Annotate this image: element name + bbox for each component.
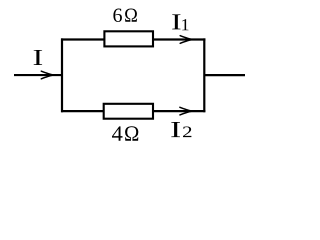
value label "4" of R2: [112, 126, 122, 140]
resistor R2 body (4 ohm): [104, 104, 153, 119]
label I of I1: [172, 14, 180, 29]
node A: left junction vertical wire: [61, 38, 63, 112]
wire: top branch from node A to resistor R1: [61, 38, 104, 40]
value label "6" of R1: [113, 9, 122, 22]
wire: bottom branch from R2 to node B: [153, 110, 205, 112]
current arrow for I2 on bottom branch: [180, 107, 192, 115]
label I (total current): [34, 50, 42, 65]
wire: top branch from R1 to node B: [153, 38, 206, 40]
wire: bottom branch from node A to resistor R2: [61, 110, 104, 112]
wire: input lead into node A: [14, 74, 63, 76]
value label "Omega" of R1: [125, 9, 137, 22]
node B: right junction vertical wire: [203, 38, 205, 112]
subscript 2 of I2: [183, 127, 191, 138]
subscript 1 of I1: [182, 19, 188, 30]
resistor R1 body (6 ohm): [104, 31, 153, 46]
current arrow for I1 on top branch: [180, 36, 192, 44]
value label "Omega" of R2: [125, 126, 138, 141]
wire: output lead from node B: [204, 74, 246, 76]
label I of I2: [171, 122, 180, 137]
current arrow for I on input lead: [41, 71, 53, 79]
